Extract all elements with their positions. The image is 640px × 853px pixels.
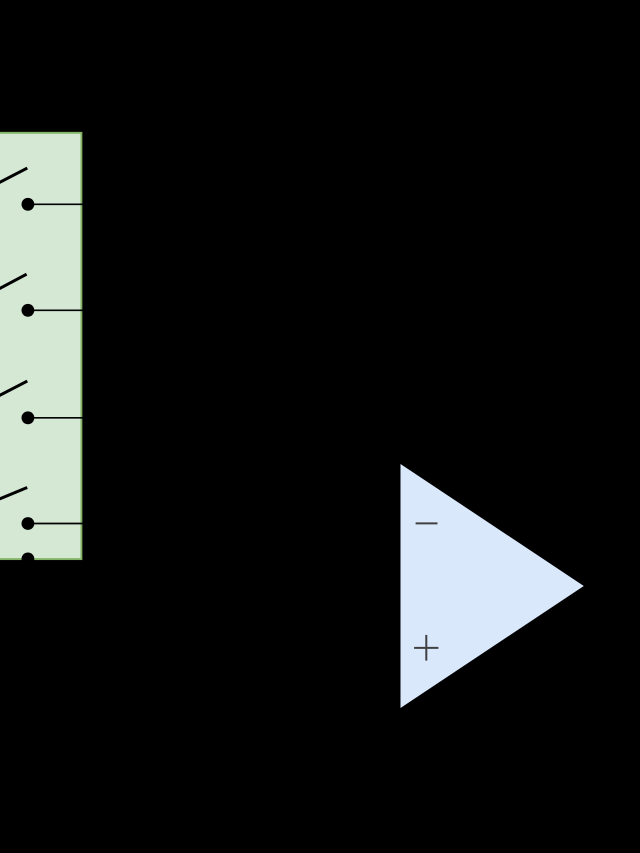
switch bank box [0,133,81,559]
switch S4 node dot [22,517,35,530]
switch S2 node dot [22,304,35,317]
switch S2 lever [0,274,27,291]
switch S3 wire [28,417,88,419]
switch S2 wire [28,309,88,311]
op-amp U1 body [401,464,584,708]
switch S3 node dot [22,411,35,424]
switch S1 wire [28,203,88,205]
switch S4 wire [28,523,88,525]
switch S1 lever [0,168,27,185]
op-amp non-inverting input label (plus) [414,635,438,661]
switch S4 lever [0,488,27,502]
op-amp inverting input label (minus) [416,522,438,524]
switch S3 lever [0,381,27,398]
bottom rail node dot [22,553,35,566]
switch S1 node dot [22,198,35,211]
